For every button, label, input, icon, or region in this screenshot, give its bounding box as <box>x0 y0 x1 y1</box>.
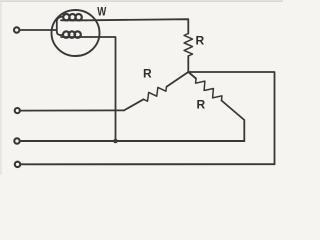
svg-text:R: R <box>197 98 206 112</box>
svg-text:W: W <box>97 5 107 19</box>
svg-text:R: R <box>196 34 205 48</box>
svg-text:R: R <box>143 67 152 81</box>
